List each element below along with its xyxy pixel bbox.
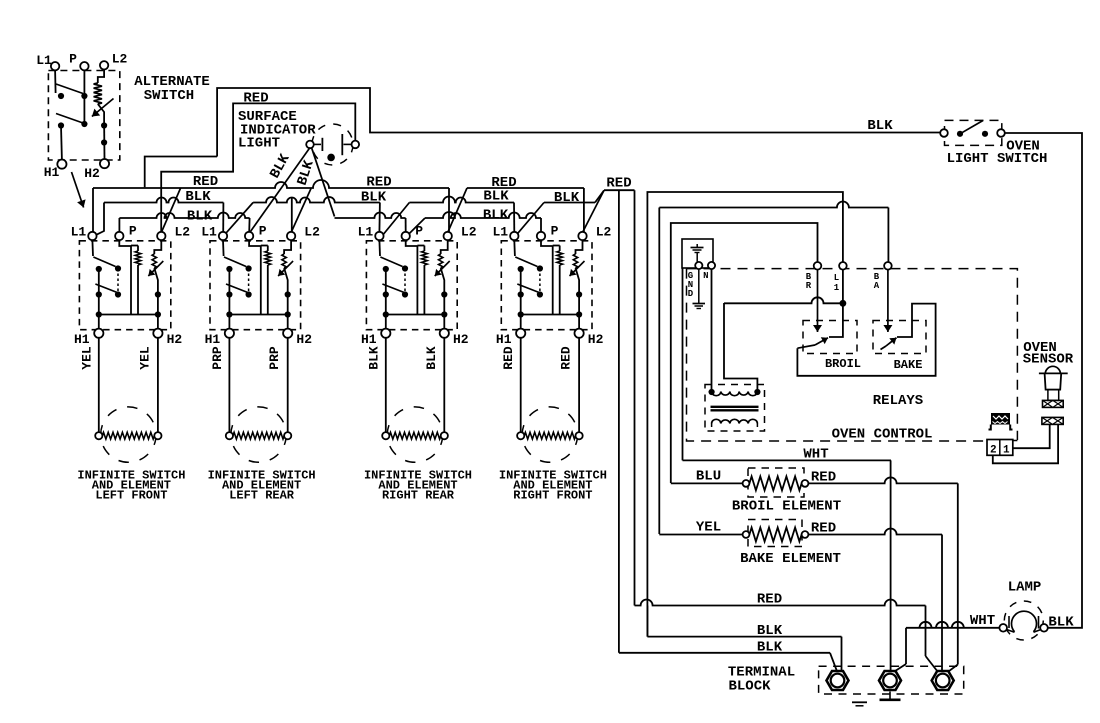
svg-text:P: P bbox=[415, 224, 423, 239]
infinite switch 2 bottom wire bbox=[229, 314, 287, 316]
infinite switch 1 terminal L1 bbox=[88, 232, 96, 240]
wire BLK from oven light switch down right side to lamp bbox=[1005, 133, 1082, 628]
infinite switch 2 terminal H2 bbox=[283, 329, 292, 338]
infinite switch 2 right column wire bbox=[248, 269, 250, 295]
infinite switch 3 terminal H1 bbox=[381, 329, 390, 338]
svg-text:BLK: BLK bbox=[424, 346, 439, 370]
oven lamp filament loop bbox=[1011, 611, 1036, 632]
oven sensor neck bbox=[1048, 390, 1059, 401]
svg-text:BLK: BLK bbox=[867, 118, 893, 134]
infinite switch 3 wire to H1 bbox=[385, 315, 387, 329]
infinite switch 2 L2 bimetal jog bbox=[284, 240, 291, 254]
svg-text:BLU: BLU bbox=[696, 469, 721, 485]
wire RED H1 of switch 4 to element bbox=[520, 338, 522, 432]
infinite switch 3 lower contact dots bbox=[383, 291, 389, 297]
svg-text:P: P bbox=[129, 224, 137, 239]
svg-text:L1: L1 bbox=[358, 225, 374, 240]
infinite switch 2 L1 lead bbox=[222, 240, 225, 256]
terminal N bbox=[708, 262, 715, 269]
connector 2|1 plug bbox=[987, 440, 1013, 456]
oven control frame third wire to relay BR bbox=[671, 223, 818, 483]
terminal BR bbox=[814, 262, 822, 270]
alternate switch terminal L1 bbox=[51, 62, 59, 70]
wire RED from bake element to right stud bbox=[808, 529, 942, 535]
infinite switch 4 bottom wire bbox=[521, 314, 579, 316]
svg-text:H1: H1 bbox=[496, 332, 512, 347]
surface element 3 terminals bbox=[382, 432, 389, 439]
infinite switch 2 terminal P bbox=[245, 232, 253, 240]
infinite switch 4 pilot loop with resistor bbox=[552, 246, 554, 315]
infinite switch 2 terminal H1 bbox=[225, 329, 234, 338]
infinite switch 4 L1 lead bbox=[513, 240, 516, 256]
infinite switch 1 upper contact blade bbox=[93, 257, 115, 267]
infinite switch 1 terminal H1 bbox=[94, 329, 103, 338]
oven lamp right terminal bbox=[1040, 624, 1048, 632]
alternate switch resistor to H2 wire bbox=[98, 104, 104, 121]
bake element dashed enclosure bbox=[748, 520, 802, 547]
broil relay pivot wire to frame bbox=[797, 345, 815, 348]
svg-text:N: N bbox=[703, 271, 708, 281]
infinite switch 4 L2 bimetal jog bbox=[576, 240, 583, 254]
RED bus drop to L2 of switch 3 bbox=[448, 188, 450, 232]
infinite switch 4 L2 branch dots bbox=[576, 291, 582, 297]
infinite switch 1 lower contact blade bbox=[95, 284, 118, 293]
svg-text:SENSOR: SENSOR bbox=[1023, 352, 1074, 368]
infinite switch 1 bottom wire bbox=[99, 314, 158, 316]
bake relay blade bbox=[886, 338, 897, 346]
BLK bus1 drop to L1 of switch 4 bbox=[513, 203, 515, 233]
svg-text:H2: H2 bbox=[588, 332, 604, 347]
infinite switch 2 upper contact dots bbox=[226, 266, 232, 272]
oven control dashed enclosure bbox=[687, 269, 1018, 441]
svg-text:2: 2 bbox=[990, 445, 997, 457]
svg-text:WHT: WHT bbox=[970, 613, 995, 629]
svg-text:BLK: BLK bbox=[187, 209, 213, 225]
surface element 3 resistor bbox=[389, 432, 441, 439]
infinite switch 2 pilot lead from P bbox=[249, 240, 261, 246]
infinite switch 1 wire dots to H2 bbox=[157, 295, 159, 329]
alternate switch upper contact blade bbox=[56, 84, 83, 94]
junction dot on L1 line bbox=[840, 300, 847, 307]
alternate switch terminal L2 bbox=[100, 61, 108, 69]
infinite switch 2 terminal L1 bbox=[219, 232, 227, 240]
infinite switch 3 L2 branch dots bbox=[441, 291, 447, 297]
svg-text:BLK: BLK bbox=[366, 346, 381, 370]
diagonal wire L1 switch3 to bus1 segment C bbox=[381, 203, 409, 238]
svg-text:P: P bbox=[551, 224, 559, 239]
diagonal wire L1 switch4 to bus1 segment D bbox=[517, 203, 544, 235]
infinite switch 4 upper contact blade bbox=[515, 257, 537, 267]
infinite switch 1 lower contact dots bbox=[96, 291, 102, 297]
BLK bus1 wire segment C bbox=[409, 197, 514, 203]
infinite switch 4 lower contact blade bbox=[517, 284, 540, 293]
oven lamp dashed circle bbox=[1004, 601, 1043, 640]
wire YEL to bake element bbox=[659, 534, 742, 536]
svg-text:H1: H1 bbox=[44, 165, 60, 180]
infinite switch 3 L1 lead bbox=[378, 240, 381, 256]
BLK bus1 drop to L1 of switch 3 bbox=[378, 203, 381, 233]
infinite switch 4 bimetal arrow bbox=[570, 261, 585, 276]
infinite switch 2 pilot loop with resistor bbox=[260, 246, 262, 315]
infinite switch 2 L2 branch dots bbox=[285, 291, 291, 297]
infinite switch 4 right column wire bbox=[539, 269, 541, 295]
oven lamp lead bars bbox=[1008, 616, 1010, 628]
infinite switch 3 pilot loop with resistor bbox=[416, 246, 418, 315]
BLK bus2 left corner drop to P of switch 1 bbox=[118, 218, 120, 232]
svg-text:PRP: PRP bbox=[267, 346, 282, 370]
surface element 1 terminals bbox=[95, 432, 102, 439]
infinite switch 1 L2 branch dots bbox=[155, 291, 161, 297]
terminal BA bbox=[884, 262, 892, 270]
wire PRP H2 of switch 2 to element bbox=[287, 338, 289, 432]
infinite switch 4 terminal L2 bbox=[578, 232, 586, 240]
RED bus wire section 2 bbox=[467, 187, 584, 189]
infinite switch 3 terminal L1 bbox=[375, 232, 383, 240]
svg-text:YEL: YEL bbox=[137, 346, 152, 370]
svg-text:RED: RED bbox=[606, 176, 631, 192]
wire YEL H1 of switch 1 to element bbox=[98, 338, 100, 432]
bake element resistor bbox=[749, 528, 801, 542]
alternate switch upper contact dots bbox=[58, 93, 64, 99]
infinite switch 2 wire dots to H2 bbox=[287, 295, 289, 329]
bake element terminals bbox=[743, 531, 750, 538]
surface indicator light glow dot bbox=[327, 154, 335, 162]
infinite switch 3 right column wire bbox=[404, 269, 406, 295]
diagonal wire L2 switch2 to RED bus bbox=[291, 189, 311, 233]
infinite switch 1 right column wire bbox=[117, 269, 119, 295]
svg-text:H2: H2 bbox=[296, 332, 312, 347]
terminal block ground stem bbox=[889, 692, 891, 700]
infinite switch 1 L1 lead bbox=[91, 240, 94, 256]
svg-text:BLK: BLK bbox=[483, 208, 509, 224]
wire BLK H2 of switch 3 to element bbox=[443, 338, 445, 432]
oven sensor wire 2 to connector 211 bbox=[993, 424, 1058, 463]
surface element 1 resistor bbox=[102, 432, 154, 439]
alternate switch terminal P bbox=[80, 62, 88, 70]
svg-text:LEFT REAR: LEFT REAR bbox=[229, 489, 295, 503]
surface indicator light electrodes bbox=[314, 143, 321, 145]
infinite switch 3 dashed enclosure bbox=[366, 241, 457, 330]
oven control frame second wire to relay BA bbox=[659, 202, 888, 208]
alternate switch lower contact dots bbox=[58, 122, 64, 128]
infinite switch 4 dashed enclosure bbox=[501, 241, 592, 330]
infinite switch 3 pilot lead from P bbox=[406, 240, 418, 246]
BLK bus1 wire segment D bbox=[544, 202, 595, 204]
wire BLU to broil element bbox=[671, 482, 743, 484]
alternate switch terminal H1 bbox=[57, 160, 66, 169]
infinite switch 3 terminal P bbox=[402, 232, 410, 240]
wire BLK H1 of switch 3 to element bbox=[385, 338, 387, 432]
svg-text:H2: H2 bbox=[453, 332, 469, 347]
wire RED from broil element to right stud bbox=[808, 477, 957, 483]
BLK bus1 ramp joining RED section 4 bbox=[595, 190, 604, 202]
oven light switch contact dots bbox=[957, 131, 963, 137]
svg-text:WHT: WHT bbox=[803, 447, 828, 463]
surface element 4 terminals bbox=[517, 432, 524, 439]
svg-text:L2: L2 bbox=[112, 52, 128, 67]
infinite switch 2 lower contact blade bbox=[226, 284, 249, 293]
svg-text:R: R bbox=[806, 281, 812, 291]
oven light switch left terminal bbox=[940, 129, 948, 137]
infinite switch 1 terminal H2 bbox=[153, 329, 162, 338]
diagonal wire L2 switch4 to RED bus bbox=[583, 190, 605, 232]
infinite switch 3 wire dots to H2 bbox=[443, 295, 445, 329]
infinite switch 1 left column wire bbox=[98, 269, 100, 315]
svg-text:YEL: YEL bbox=[696, 520, 721, 536]
surface element 2 resistor bbox=[233, 432, 284, 439]
svg-text:L2: L2 bbox=[461, 225, 477, 240]
wire L2 net vertical from RED section 4 to bottom BLK bbox=[618, 190, 620, 653]
infinite switch 3 bottom wire bbox=[386, 314, 445, 316]
terminal GND bbox=[695, 262, 702, 269]
infinite switch 2 left column wire bbox=[228, 269, 230, 315]
surface indicator light left terminal bbox=[306, 141, 314, 149]
wire GND to lower ground bbox=[698, 269, 700, 303]
svg-text:L1: L1 bbox=[71, 225, 87, 240]
alternate switch terminal H2 bbox=[100, 159, 109, 168]
svg-text:BLK: BLK bbox=[757, 640, 783, 656]
svg-text:L1: L1 bbox=[492, 225, 508, 240]
svg-text:LIGHT SWITCH: LIGHT SWITCH bbox=[947, 151, 1048, 167]
alternate switch variable resistor element bbox=[94, 83, 102, 104]
diagonal wire L2 switch3 to RED bus bbox=[448, 188, 467, 233]
svg-text:H1: H1 bbox=[361, 332, 377, 347]
svg-text:L1: L1 bbox=[36, 53, 52, 68]
svg-text:BLOCK: BLOCK bbox=[728, 679, 771, 695]
terminal L1 bbox=[839, 262, 847, 270]
wire from relay bus to transformer primary right bbox=[724, 303, 757, 391]
alternate switch wiper arrow bbox=[92, 99, 114, 117]
alternate switch L2 branch contact dots bbox=[101, 122, 107, 128]
svg-text:1: 1 bbox=[834, 283, 840, 293]
surface indicator light dashed circle bbox=[312, 124, 353, 165]
svg-text:L: L bbox=[834, 273, 839, 283]
svg-text:H2: H2 bbox=[167, 332, 183, 347]
svg-text:L1: L1 bbox=[201, 225, 217, 240]
svg-text:L2: L2 bbox=[304, 225, 320, 240]
small chassis ground bbox=[852, 701, 867, 703]
wire BLK from junction to oven light switch bbox=[217, 88, 940, 157]
infinite switch 4 terminal H2 bbox=[575, 329, 584, 338]
svg-text:RELAYS: RELAYS bbox=[873, 393, 923, 409]
RED bus wire section 1 bbox=[93, 180, 449, 188]
svg-text:P: P bbox=[259, 224, 267, 239]
svg-text:H1: H1 bbox=[205, 332, 221, 347]
infinite switch 2 bimetal arrow bbox=[278, 261, 293, 276]
RED bus drop to L1 of switch 1 bbox=[92, 188, 94, 232]
transformer secondary winding bbox=[712, 419, 758, 423]
wire BLK diagonal from light becoming third bus bbox=[312, 148, 335, 217]
surface indicator light right terminal bbox=[352, 141, 360, 149]
oven light switch right terminal bbox=[997, 129, 1005, 137]
wire N terminal to transformer primary bbox=[711, 269, 713, 391]
surface element 2 dashed circle bbox=[231, 407, 286, 462]
BLK bus2 drop to P of switch 4 bbox=[540, 218, 542, 232]
BLK bus1 jog down to L1 of switch 1 bbox=[96, 203, 105, 236]
svg-text:BLK: BLK bbox=[1048, 615, 1074, 631]
infinite switch 4 upper contact dots bbox=[518, 266, 524, 272]
oven sensor connector upper bbox=[1043, 400, 1064, 407]
wire BLK bottom run 2 to left stud bbox=[619, 652, 830, 654]
wire BLK diagonal from light to P of switch 2 bbox=[250, 148, 310, 233]
alternate switch dashed enclosure bbox=[48, 71, 119, 161]
wire RED from surface light around label to L2 of switch 1 bbox=[161, 103, 355, 197]
infinite switch 3 upper contact dots bbox=[383, 266, 389, 272]
infinite switch 1 L2 bimetal jog bbox=[154, 240, 161, 254]
svg-text:BROIL ELEMENT: BROIL ELEMENT bbox=[732, 499, 841, 515]
BLK bus1 wire segment A bbox=[104, 198, 223, 203]
infinite switch 4 lower contact dots bbox=[518, 291, 524, 297]
BLK bus1 wire segment B bbox=[253, 197, 380, 202]
infinite switch 3 bimetal arrow bbox=[435, 261, 450, 276]
infinite switch 4 wire dots to H2 bbox=[578, 295, 580, 329]
alternate switch L1 lead wire bbox=[54, 70, 57, 93]
terminal block dashed enclosure bbox=[819, 666, 964, 694]
infinite switch 4 left column wire bbox=[520, 269, 522, 315]
infinite switch 3 L2 bimetal jog bbox=[441, 240, 448, 254]
svg-text:RED: RED bbox=[559, 346, 574, 370]
BLK bus2 drop to P of switch 2 bbox=[248, 218, 250, 232]
chassis ground symbol top bbox=[696, 244, 698, 247]
infinite switch 1 terminal L2 bbox=[157, 232, 165, 240]
wire relay coil bus with junction bbox=[724, 297, 843, 303]
wire BLK bottom run 1 to left stud bbox=[646, 606, 648, 637]
infinite switch 4 pilot lead from P bbox=[541, 240, 553, 246]
transformer core bbox=[711, 406, 759, 408]
alternate switch P lead wire bbox=[83, 70, 85, 124]
svg-text:PRP: PRP bbox=[210, 346, 225, 370]
svg-text:RIGHT REAR: RIGHT REAR bbox=[382, 489, 455, 503]
infinite switch 4 terminal L1 bbox=[510, 232, 518, 240]
oven lamp left terminal bbox=[999, 624, 1007, 632]
wire YEL H2 of switch 1 to element bbox=[157, 338, 159, 432]
infinite switch 3 lower contact blade bbox=[382, 284, 405, 293]
wire RED H2 of switch 4 to element bbox=[578, 338, 580, 432]
infinite switch 2 dashed enclosure bbox=[210, 241, 301, 330]
surface element 4 resistor bbox=[524, 432, 575, 439]
BLK bus1 drop to L1 of switch 2 bbox=[222, 203, 224, 233]
oven sensor connector lower bbox=[1042, 417, 1063, 424]
terminal block stud L2 bbox=[932, 671, 954, 690]
svg-text:RIGHT FRONT: RIGHT FRONT bbox=[513, 489, 592, 503]
relay common frame wire bbox=[797, 304, 935, 376]
oven control frame outer wire to relay L1 bbox=[647, 192, 843, 637]
infinite switch 2 upper contact blade bbox=[224, 257, 246, 267]
surface element 4 dashed circle bbox=[522, 407, 577, 462]
wire segment joining RED bus at left bbox=[145, 157, 217, 188]
connector 211 body bbox=[991, 413, 1010, 425]
wire PRP H1 of switch 2 to element bbox=[228, 338, 230, 432]
infinite switch 1 terminal P bbox=[115, 232, 123, 240]
infinite switch 1 bimetal arrow bbox=[148, 261, 163, 276]
oven sensor wire 1 to connector 211 bbox=[1013, 424, 1050, 448]
svg-text:A: A bbox=[874, 281, 880, 291]
alternate switch wire to H1 bbox=[60, 126, 63, 160]
oven control ground terminal box bbox=[682, 239, 713, 268]
terminal block stud L1 bbox=[827, 671, 849, 690]
oven sensor bulb bbox=[1045, 366, 1060, 373]
svg-text:1: 1 bbox=[1003, 445, 1010, 457]
wire WHT from control to middle terminal stud bbox=[682, 268, 684, 460]
surface element 3 dashed circle bbox=[387, 407, 442, 462]
svg-text:YEL: YEL bbox=[79, 346, 94, 370]
wire RED right-side vertical bbox=[634, 190, 636, 605]
svg-text:RED: RED bbox=[811, 521, 836, 537]
svg-text:BROIL: BROIL bbox=[825, 357, 861, 371]
alternate switch lower contact blade bbox=[56, 114, 83, 124]
svg-text:RED: RED bbox=[811, 470, 836, 486]
oven light switch blade bbox=[960, 121, 983, 134]
infinite switch 3 upper contact blade bbox=[380, 257, 402, 267]
infinite switch 4 wire to H1 bbox=[520, 315, 522, 329]
diagonal wire L2 switch1 to RED bus bbox=[161, 188, 180, 233]
surface element 1 dashed circle bbox=[101, 407, 156, 462]
infinite switch 1 dashed enclosure bbox=[79, 241, 170, 330]
infinite switch 1 upper contact dots bbox=[96, 266, 102, 272]
diagonal wire P switch3 to bus2 segment C bbox=[407, 218, 425, 236]
svg-text:P: P bbox=[69, 52, 77, 67]
BLK bus2 drop to P of switch 3 bbox=[405, 218, 407, 232]
BR coil arrow into broil relay bbox=[817, 270, 819, 332]
infinite switch 2 wire to H1 bbox=[228, 315, 230, 329]
infinite switch 2 lower contact dots bbox=[226, 291, 232, 297]
broil element dashed enclosure bbox=[748, 468, 804, 497]
BA coil arrow into bake relay bbox=[887, 270, 889, 332]
alternate switch wire dots to H2 bbox=[103, 121, 105, 159]
BLK bus2 wire segment B bbox=[335, 213, 406, 219]
svg-text:SWITCH: SWITCH bbox=[144, 88, 194, 104]
bake relay dashed enclosure bbox=[873, 321, 926, 354]
svg-text:H1: H1 bbox=[74, 332, 90, 347]
svg-text:BAKE: BAKE bbox=[894, 358, 923, 372]
svg-text:BAKE ELEMENT: BAKE ELEMENT bbox=[740, 551, 841, 567]
connector 211 legs bbox=[989, 425, 991, 430]
wire WHT from lamp to middle stud bbox=[906, 622, 999, 628]
annotation arrow from alternate switch bbox=[72, 172, 84, 208]
broil relay dashed enclosure bbox=[803, 321, 857, 354]
infinite switch 1 pilot lead from P bbox=[119, 240, 131, 246]
surface element 2 terminals bbox=[226, 432, 233, 439]
infinite switch 3 left column wire bbox=[385, 269, 387, 315]
svg-text:L2: L2 bbox=[174, 225, 190, 240]
RED bus wire section 3 to right-side vertical bbox=[604, 189, 635, 191]
infinite switch 4 terminal H1 bbox=[516, 329, 525, 338]
wire L1 to broil relay contact bbox=[829, 270, 843, 337]
BLK bus2 wire segment A bbox=[119, 213, 249, 219]
infinite switch 3 terminal L2 bbox=[444, 232, 452, 240]
chassis ground symbol lower bbox=[693, 303, 706, 305]
infinite switch 2 terminal L2 bbox=[287, 232, 295, 240]
svg-text:BLK: BLK bbox=[757, 623, 783, 639]
broil element resistor bbox=[749, 476, 801, 490]
BLK bus2 wire segment C bbox=[425, 212, 541, 218]
svg-text:LIGHT: LIGHT bbox=[238, 136, 280, 152]
broil element terminals bbox=[743, 480, 750, 487]
infinite switch 1 wire to H1 bbox=[98, 315, 100, 329]
svg-text:BLK: BLK bbox=[554, 190, 580, 206]
svg-text:OVEN CONTROL: OVEN CONTROL bbox=[832, 427, 933, 443]
svg-text:L2: L2 bbox=[596, 225, 612, 240]
svg-text:D: D bbox=[688, 289, 694, 299]
svg-text:H2: H2 bbox=[84, 166, 100, 181]
terminal block ground bar bbox=[880, 698, 901, 701]
RED bus drop to L2 of switch 4 bbox=[583, 188, 585, 232]
diagonal wire L1 switch2 to bus1 segment B bbox=[225, 203, 253, 235]
oven light switch dashed enclosure bbox=[945, 120, 1002, 145]
svg-text:RED: RED bbox=[757, 592, 782, 608]
terminal block stud N bbox=[879, 671, 901, 690]
svg-text:LAMP: LAMP bbox=[1008, 580, 1042, 596]
